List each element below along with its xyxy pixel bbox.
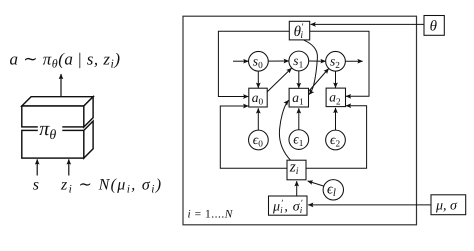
svg-text:θ′i: θ′i xyxy=(294,22,304,41)
svg-text:μ, σ: μ, σ xyxy=(435,199,458,214)
svg-text:θ: θ xyxy=(430,19,438,35)
svg-text:zi ∼ N(μi, σi): zi ∼ N(μi, σi) xyxy=(60,177,162,196)
svg-text:s: s xyxy=(33,177,39,194)
svg-text:μ′i, σ′i: μ′i, σ′i xyxy=(272,199,303,215)
svg-text:i = 1....N: i = 1....N xyxy=(188,209,234,221)
svg-text:a ∼ πθ(a | s, zi): a ∼ πθ(a | s, zi) xyxy=(10,50,121,71)
